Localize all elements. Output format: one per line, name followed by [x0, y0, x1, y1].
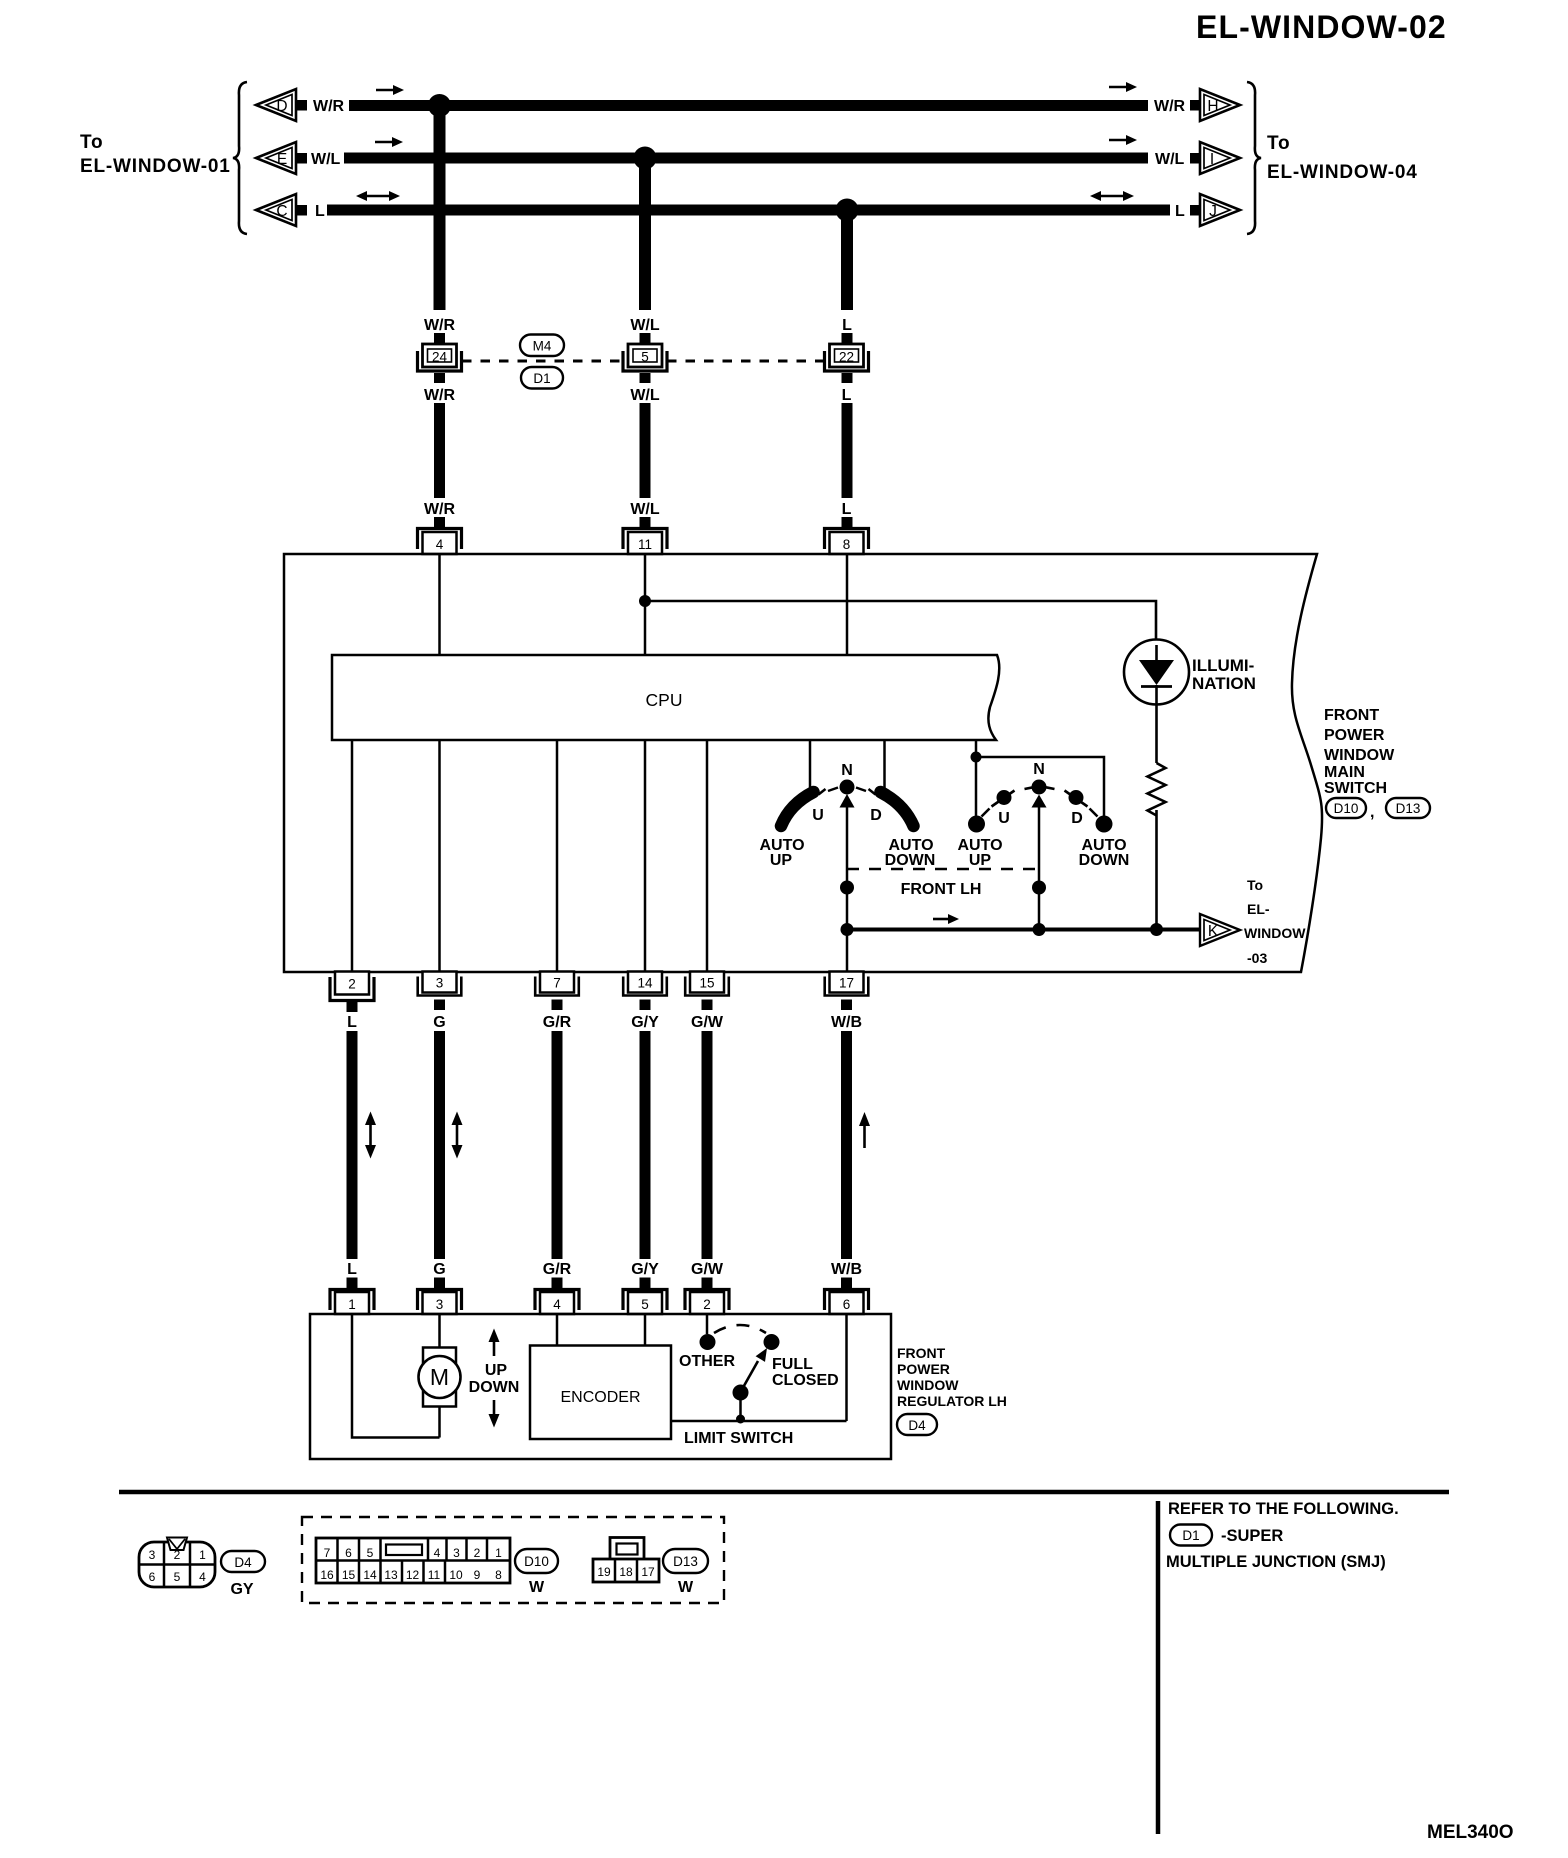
svg-text:3: 3	[436, 976, 444, 991]
connector D4 face view	[139, 1538, 215, 1588]
wire LED to resistor	[1155, 685, 1158, 763]
svg-text:D: D	[276, 98, 287, 115]
svg-text:W/B: W/B	[831, 1261, 862, 1278]
svg-text:G/R: G/R	[543, 1261, 572, 1278]
switch SW2 auto up/down	[968, 780, 1113, 833]
wire L vertical drop	[841, 210, 853, 310]
svg-text:14: 14	[363, 1568, 377, 1582]
svg-text:UP: UP	[969, 852, 992, 869]
svg-text:D: D	[870, 807, 882, 824]
svg-text:6: 6	[843, 1297, 851, 1312]
svg-text:W/L: W/L	[311, 151, 341, 168]
connector pin 1 (regulator)	[330, 1278, 374, 1315]
connector I (to EL-WINDOW-04)	[1190, 142, 1240, 174]
svg-text:6: 6	[149, 1570, 156, 1584]
svg-text:4: 4	[553, 1297, 561, 1312]
switch SW1 auto up/down front LH	[781, 780, 914, 827]
arrow right on W/L left	[375, 137, 403, 147]
svg-text:WINDOW: WINDOW	[1324, 747, 1395, 764]
svg-text:EL-WINDOW-04: EL-WINDOW-04	[1267, 162, 1418, 183]
oval M4	[520, 335, 564, 357]
svg-text:M4: M4	[533, 339, 552, 354]
svg-text:13: 13	[384, 1568, 398, 1582]
wire W/R mid segment	[434, 403, 445, 498]
wire CPU to pin 7	[556, 740, 559, 972]
svg-text:24: 24	[432, 350, 448, 365]
wire L bus	[327, 205, 1170, 216]
svg-text:D10: D10	[524, 1554, 549, 1569]
svg-text:18: 18	[619, 1565, 633, 1579]
svg-text:W/L: W/L	[1155, 151, 1185, 168]
svg-text:8: 8	[843, 537, 851, 552]
wire CPU to switch2 left	[975, 740, 978, 820]
resistor R1	[1148, 763, 1166, 816]
wire L long	[347, 1031, 358, 1259]
svg-text:WINDOW: WINDOW	[897, 1377, 959, 1393]
wire pin2 to limit switch	[706, 1314, 709, 1334]
svg-text:D10: D10	[1334, 801, 1359, 816]
junction node on pin11 wire	[639, 595, 651, 607]
svg-text:L: L	[347, 1261, 357, 1278]
svg-text:16: 16	[320, 1568, 334, 1582]
svg-text:5: 5	[174, 1570, 181, 1584]
oval D10 id	[515, 1549, 558, 1573]
svg-text:14: 14	[637, 976, 653, 991]
wire switch2 wiper to bus	[1038, 806, 1041, 929]
svg-text:LIMIT SWITCH: LIMIT SWITCH	[684, 1430, 793, 1447]
front power window main switch box	[284, 554, 1322, 972]
junction dot W/L	[634, 147, 657, 170]
svg-text:W/R: W/R	[424, 317, 456, 334]
wire to illumination	[645, 601, 1156, 641]
svg-text:5: 5	[641, 1297, 649, 1312]
svg-text:19: 19	[597, 1565, 611, 1579]
connector pin 3 bottom	[418, 972, 462, 1011]
wire switch1 wiper to bus	[846, 806, 849, 972]
connector pin 3 (regulator)	[418, 1278, 462, 1315]
svg-text:FRONT: FRONT	[1324, 707, 1379, 724]
svg-text:W/R: W/R	[1154, 98, 1186, 115]
junction dot at 1039	[1033, 923, 1046, 936]
connector pin 2 (regulator)	[685, 1278, 729, 1315]
svg-text:7: 7	[553, 976, 561, 991]
SMJ connector pin 22	[825, 333, 869, 383]
svg-text:DOWN: DOWN	[1079, 852, 1130, 869]
wire motor to bottom	[438, 1406, 441, 1438]
svg-text:D1: D1	[1182, 1528, 1199, 1543]
svg-text:15: 15	[699, 976, 714, 991]
svg-text:4: 4	[199, 1570, 206, 1584]
wire W/B long	[841, 1031, 852, 1259]
limit switch	[700, 1325, 780, 1424]
svg-text:12: 12	[406, 1568, 420, 1582]
up/down arrows motor	[489, 1329, 500, 1357]
wire W/R bus (top)	[349, 100, 1148, 111]
svg-text:3: 3	[149, 1548, 156, 1562]
svg-text:SWITCH: SWITCH	[1324, 780, 1387, 797]
svg-text:2: 2	[348, 977, 356, 992]
wire pin1 to motor	[352, 1314, 440, 1438]
connector pin 15 bottom	[685, 972, 729, 1011]
svg-text:5: 5	[641, 350, 649, 365]
svg-text:FRONT LH: FRONT LH	[901, 881, 982, 898]
connector pin 7 bottom	[535, 972, 579, 1011]
svg-text:W/R: W/R	[424, 501, 456, 518]
svg-text:G/Y: G/Y	[631, 1261, 659, 1278]
svg-text:NATION: NATION	[1192, 674, 1256, 693]
svg-text:D: D	[1071, 810, 1083, 827]
svg-text:G: G	[433, 1014, 445, 1031]
wire resistor to bus	[1155, 810, 1158, 929]
wire switch2 bridge	[976, 757, 1104, 820]
wire pin6 down	[845, 1314, 848, 1421]
wire CPU to pin 14	[644, 740, 647, 972]
svg-text:W/L: W/L	[630, 387, 660, 404]
right brace	[1247, 82, 1261, 234]
svg-text:2: 2	[174, 1548, 181, 1562]
svg-text:17: 17	[641, 1565, 655, 1579]
svg-text:1: 1	[348, 1297, 356, 1312]
svg-text:11: 11	[428, 1568, 441, 1582]
svg-text:I: I	[1210, 151, 1214, 168]
svg-text:11: 11	[638, 537, 652, 552]
wire W/L mid segment	[640, 403, 651, 498]
wire W/L bus	[344, 153, 1148, 164]
oval D13 id	[663, 1549, 708, 1573]
svg-text:OTHER: OTHER	[679, 1353, 735, 1370]
svg-text:REFER TO THE FOLLOWING.: REFER TO THE FOLLOWING.	[1168, 1500, 1399, 1518]
svg-text:15: 15	[342, 1568, 356, 1582]
oval D4 ref	[897, 1414, 937, 1435]
svg-text:ENCODER: ENCODER	[560, 1389, 640, 1406]
wire G/W long	[702, 1031, 713, 1259]
svg-text:,: ,	[1370, 804, 1374, 821]
svg-text:G/Y: G/Y	[631, 1014, 659, 1031]
front power window regulator LH box	[310, 1314, 891, 1459]
junction dot at resistor	[1150, 923, 1163, 936]
svg-text:DOWN: DOWN	[885, 852, 936, 869]
dashed group box	[302, 1517, 724, 1603]
svg-text:FRONT: FRONT	[897, 1345, 946, 1361]
separator line	[119, 1490, 1449, 1495]
wire G long	[434, 1031, 445, 1259]
svg-text:FULL: FULL	[772, 1356, 813, 1373]
svg-text:L: L	[347, 1014, 357, 1031]
svg-text:22: 22	[839, 350, 854, 365]
svg-text:1: 1	[495, 1546, 502, 1560]
oval D10 ref	[1326, 798, 1366, 818]
junction dot at 847	[841, 923, 854, 936]
svg-text:W/L: W/L	[630, 317, 660, 334]
connector pin 4 (regulator)	[535, 1278, 579, 1315]
svg-text:D13: D13	[1396, 801, 1421, 816]
svg-text:G/W: G/W	[691, 1261, 724, 1278]
svg-text:-SUPER: -SUPER	[1221, 1527, 1283, 1545]
svg-text:C: C	[276, 203, 287, 220]
svg-text:MEL340O: MEL340O	[1427, 1822, 1514, 1843]
svg-text:EL-WINDOW-01: EL-WINDOW-01	[80, 156, 231, 177]
SMJ connector pin 24	[418, 333, 462, 383]
junction dot W/R	[428, 94, 451, 117]
svg-text:U: U	[998, 810, 1010, 827]
encoder box	[530, 1346, 671, 1440]
svg-text:-03: -03	[1247, 950, 1267, 966]
svg-text:UP: UP	[770, 852, 793, 869]
svg-text:6: 6	[345, 1546, 352, 1560]
svg-text:To: To	[1247, 877, 1263, 893]
svg-text:MAIN: MAIN	[1324, 764, 1365, 781]
svg-text:G: G	[433, 1261, 445, 1278]
double arrow on wire L	[365, 1112, 376, 1159]
svg-text:D4: D4	[908, 1418, 926, 1433]
connector D (to EL-WINDOW-01)	[256, 89, 307, 121]
connector E (to EL-WINDOW-01)	[256, 142, 307, 174]
wire pin5 to encoder	[644, 1314, 647, 1346]
svg-text:N: N	[1033, 761, 1045, 778]
svg-text:17: 17	[839, 976, 854, 991]
up arrow on wire W/B	[859, 1112, 870, 1148]
motor M	[419, 1348, 461, 1407]
wire limit switch net	[671, 1420, 847, 1423]
connector pin 2 bottom (main switch)	[330, 972, 374, 1013]
connector pin 5 (regulator)	[623, 1278, 667, 1315]
svg-text:W: W	[678, 1579, 694, 1596]
SMJ connector pin 5	[623, 333, 667, 383]
svg-text:G/R: G/R	[543, 1014, 572, 1031]
wire L mid segment	[842, 403, 853, 498]
svg-text:W/L: W/L	[630, 501, 660, 518]
connector pin 11 (main switch)	[623, 517, 667, 554]
connector K (to EL-WINDOW-03)	[1200, 914, 1240, 946]
arrow right on W/L right	[1109, 135, 1137, 145]
svg-text:N: N	[841, 762, 853, 779]
junction dot L	[836, 199, 859, 222]
svg-text:2: 2	[703, 1297, 711, 1312]
svg-text:9: 9	[474, 1568, 481, 1582]
svg-text:POWER: POWER	[1324, 727, 1385, 744]
arrow right on W/R left	[376, 85, 404, 95]
connector pin 4 (main switch)	[418, 517, 462, 554]
right column divider	[1156, 1501, 1161, 1834]
wire pin11 to CPU	[644, 554, 647, 655]
connector D10 face view	[316, 1538, 510, 1583]
wire W/L vertical drop	[639, 158, 651, 310]
svg-text:To: To	[1267, 133, 1290, 154]
connector pin 6 (regulator)	[825, 1278, 869, 1315]
svg-text:REGULATOR LH: REGULATOR LH	[897, 1393, 1007, 1409]
svg-text:H: H	[1207, 98, 1218, 115]
svg-text:DOWN: DOWN	[469, 1379, 520, 1396]
svg-text:MULTIPLE JUNCTION (SMJ): MULTIPLE JUNCTION (SMJ)	[1166, 1553, 1386, 1571]
dashed link 5 to 22	[667, 360, 825, 363]
dashed mechanical link	[847, 868, 1039, 870]
svg-text:CPU: CPU	[646, 690, 683, 710]
svg-text:GY: GY	[230, 1581, 253, 1598]
svg-text:To: To	[80, 132, 103, 153]
svg-text:EL-WINDOW-02: EL-WINDOW-02	[1196, 9, 1447, 45]
svg-text:POWER: POWER	[897, 1361, 950, 1377]
svg-text:W/R: W/R	[313, 98, 345, 115]
wire bus to K	[847, 928, 1200, 932]
svg-text:L: L	[842, 317, 852, 334]
svg-text:L: L	[315, 203, 325, 220]
svg-text:EL-: EL-	[1247, 901, 1270, 917]
svg-text:8: 8	[495, 1568, 502, 1582]
connector pin 14 bottom	[623, 972, 667, 1011]
wire pin8 to CPU	[846, 554, 849, 655]
dashed link 24 to 5	[462, 360, 623, 363]
illumination LED	[1124, 640, 1189, 705]
svg-text:D4: D4	[234, 1555, 252, 1570]
svg-text:3: 3	[436, 1297, 444, 1312]
svg-text:CLOSED: CLOSED	[772, 1372, 839, 1389]
svg-text:W: W	[529, 1579, 545, 1596]
wire CPU to switch1 right	[883, 740, 886, 790]
double arrow on L left	[356, 191, 400, 201]
svg-text:4: 4	[436, 537, 444, 552]
svg-text:5: 5	[367, 1546, 374, 1560]
svg-text:L: L	[842, 501, 852, 518]
svg-text:W/B: W/B	[831, 1014, 862, 1031]
svg-text:10: 10	[449, 1568, 463, 1582]
left brace	[233, 82, 247, 234]
svg-text:W/R: W/R	[424, 387, 456, 404]
arrow on K wire	[933, 914, 959, 924]
svg-text:L: L	[842, 387, 852, 404]
svg-text:J: J	[1209, 203, 1217, 220]
svg-text:G/W: G/W	[691, 1014, 724, 1031]
svg-text:3: 3	[453, 1546, 460, 1560]
wire pin4 to encoder	[556, 1314, 559, 1346]
svg-text:K: K	[1208, 923, 1219, 940]
svg-text:D13: D13	[673, 1554, 698, 1569]
svg-text:UP: UP	[485, 1362, 508, 1379]
oval D1	[521, 367, 563, 389]
svg-text:4: 4	[434, 1546, 441, 1560]
junction dot switch2 feed	[971, 752, 982, 763]
wire G/R long	[552, 1031, 563, 1259]
oval D4 id	[221, 1551, 265, 1572]
wire CPU to pin 2	[351, 740, 354, 972]
wire CPU to pin 3	[438, 740, 441, 972]
oval D13 ref	[1386, 798, 1430, 818]
junction dot switch1	[840, 881, 854, 895]
connector pin 17 bottom	[825, 972, 869, 1011]
svg-text:M: M	[430, 1364, 449, 1390]
CPU box U1	[332, 655, 999, 740]
svg-text:WINDOW: WINDOW	[1244, 925, 1306, 941]
wire CPU to switch1 left	[809, 740, 812, 790]
wire G/Y long	[640, 1031, 651, 1259]
svg-text:7: 7	[324, 1546, 331, 1560]
wire pin4 to CPU	[438, 554, 441, 655]
wire pin3 to motor	[438, 1314, 441, 1348]
svg-text:1: 1	[199, 1548, 206, 1562]
svg-text:2: 2	[474, 1546, 481, 1560]
oval D1 note	[1170, 1525, 1212, 1546]
wire W/R vertical drop	[434, 105, 446, 310]
svg-text:L: L	[1175, 203, 1185, 220]
connector C (to EL-WINDOW-01)	[256, 194, 307, 226]
junction dot switch2	[1032, 881, 1046, 895]
double arrow on L right	[1090, 191, 1134, 201]
svg-text:ILLUMI-: ILLUMI-	[1192, 656, 1254, 675]
connector pin 8 (main switch)	[825, 517, 869, 554]
double arrow on wire G	[452, 1112, 463, 1159]
connector H (to EL-WINDOW-04)	[1190, 89, 1240, 121]
connector J (to EL-WINDOW-04)	[1190, 194, 1240, 226]
arrow right on W/R right	[1109, 82, 1137, 92]
connector D13 face view	[593, 1538, 659, 1583]
svg-text:U: U	[812, 807, 824, 824]
svg-text:E: E	[277, 151, 287, 168]
svg-text:D1: D1	[533, 371, 550, 386]
wire CPU to pin 15	[706, 740, 709, 972]
